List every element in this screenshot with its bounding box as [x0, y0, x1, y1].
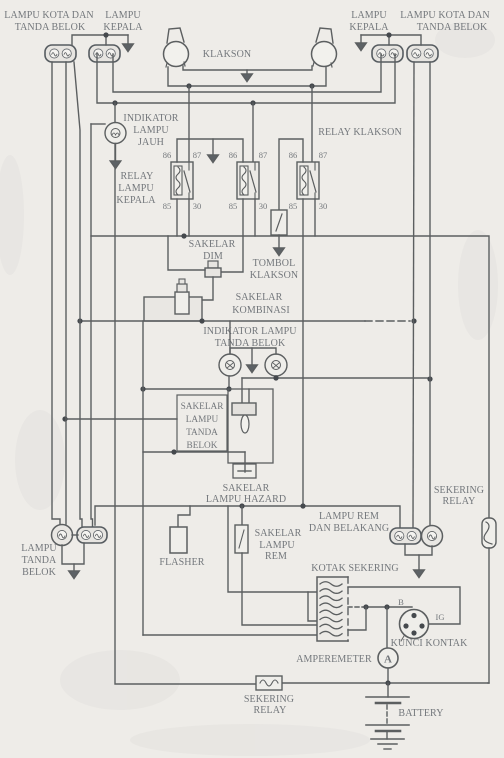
label sakelar dim: [189, 239, 236, 262]
wire right indicator to line A: [275, 376, 277, 378]
wire bottom bus: [95, 506, 400, 528]
svg-text:B: B: [398, 597, 404, 607]
svg-text:LAMPU: LAMPU: [351, 10, 387, 21]
wire top-left lamp feed: [72, 35, 128, 45]
svg-text:87: 87: [259, 150, 268, 160]
svg-text:30: 30: [193, 201, 202, 211]
wire stub left y419: [65, 418, 177, 420]
svg-text:SAKELAR: SAKELAR: [255, 528, 302, 539]
svg-text:SAKELAR: SAKELAR: [189, 239, 236, 250]
wire flasher feed: [178, 506, 190, 527]
lamp L2 kepala left: [89, 45, 120, 62]
wire left indicator to line B: [228, 376, 230, 389]
svg-text:87: 87: [193, 150, 202, 160]
wire bus C (headlamp 2): [97, 54, 395, 103]
node top-right feed junction: [386, 32, 391, 37]
svg-text:TANDA BELOK: TANDA BELOK: [417, 22, 488, 33]
svg-text:30: 30: [259, 201, 268, 211]
node bottom bus brake switch: [239, 503, 244, 508]
battery: [366, 683, 409, 739]
svg-text:86: 86: [229, 150, 238, 160]
node line A right end: [427, 376, 432, 381]
svg-text:87: 87: [319, 150, 328, 160]
wire line B: [143, 388, 228, 390]
wire line A: [242, 377, 430, 379]
svg-text:BELOK: BELOK: [187, 441, 218, 451]
label sakelar lampu hazard: [206, 483, 286, 505]
indicator lamp tanda belok left: [219, 354, 241, 376]
svg-text:KLAKSON: KLAKSON: [250, 270, 298, 281]
wire brake switch to fuse box: [242, 553, 317, 625]
wire fuse box hook: [348, 607, 366, 630]
wire relay R1 87 drop: [188, 86, 190, 162]
wire relay R3 85 long drop: [302, 199, 304, 506]
fuse sekering relay bottom: [256, 676, 282, 690]
wire fuse box B line: [348, 606, 412, 608]
wire B node to ammeter: [386, 607, 388, 648]
ammeter: [378, 648, 398, 668]
svg-text:KUNCI KONTAK: KUNCI KONTAK: [391, 638, 468, 649]
svg-text:DIM: DIM: [203, 251, 223, 262]
node horn bus to relay R3: [309, 83, 314, 88]
label sakelar lampu rem: [255, 528, 302, 562]
fuse box kotak sekering: [317, 577, 348, 641]
wire relay R3 30 to power line: [314, 199, 316, 236]
label indikator lampu jauh: [123, 113, 178, 148]
svg-text:INDIKATOR: INDIKATOR: [123, 113, 178, 124]
svg-text:LAMPU KOTA DAN: LAMPU KOTA DAN: [400, 10, 490, 21]
label sekering relay (bottom): [244, 694, 294, 716]
svg-text:REM: REM: [265, 551, 287, 562]
label lampu kepala (top left): [103, 10, 143, 33]
wire kota left vertical 3: [74, 62, 82, 527]
svg-text:KEPALA: KEPALA: [349, 22, 389, 33]
wire indikator stub: [91, 123, 105, 125]
ground arrow bottom-left lamps: [69, 564, 80, 579]
wire dim switch left to power line: [168, 236, 205, 270]
lamp bottom-left kota/belakang: [77, 527, 107, 543]
node top-left feed junction: [103, 32, 108, 37]
lamp L1 kota+tanda belok left: [45, 45, 76, 62]
horn right (klakson): [312, 28, 337, 67]
wire long bus mid (turn signal feed): [80, 320, 410, 322]
node power line relay R1: [181, 233, 186, 238]
node bus right end: [411, 318, 416, 323]
svg-text:LAMPU: LAMPU: [186, 415, 219, 425]
wire power line mid: [91, 124, 489, 518]
node stub y419: [62, 416, 67, 421]
svg-text:85: 85: [229, 201, 238, 211]
label sakelar kombinasi: [232, 292, 290, 316]
svg-text:BATTERY: BATTERY: [398, 708, 443, 719]
svg-text:INDIKATOR LAMPU: INDIKATOR LAMPU: [203, 326, 297, 337]
svg-text:30: 30: [319, 201, 328, 211]
wire rem lamps to ground: [405, 544, 432, 555]
switch sakelar lampu tanda belok: [228, 378, 273, 463]
svg-text:TANDA: TANDA: [186, 428, 218, 438]
ground arrow top-right: [356, 35, 367, 51]
switch tombol klakson: [271, 210, 287, 235]
svg-text:SEKERING: SEKERING: [244, 694, 294, 705]
node bus kombinasi corner: [199, 318, 204, 323]
node battery bus ammeter: [385, 680, 390, 685]
wire fuse box to IG loop: [348, 587, 460, 624]
wire lamp bottom-left links: [62, 535, 84, 564]
ground arrow top-left: [123, 35, 134, 52]
switch sakelar lampu rem: [235, 525, 248, 553]
ground arrow indikator jauh: [110, 144, 121, 169]
svg-text:SAKELAR: SAKELAR: [181, 402, 225, 412]
relay U1 lampu kepala A: [171, 162, 193, 199]
fuse sekering relay right: [482, 518, 496, 548]
svg-text:DAN BELAKANG: DAN BELAKANG: [309, 523, 389, 534]
svg-text:IG: IG: [436, 612, 445, 622]
lamp L3 kepala right: [372, 45, 403, 62]
wire stub y452 to hazard contact: [143, 451, 245, 453]
svg-text:86: 86: [163, 150, 172, 160]
svg-text:LAMPU: LAMPU: [259, 540, 295, 551]
lamp rem dan belakang (twin): [390, 528, 421, 544]
svg-text:A: A: [384, 654, 392, 666]
lamp tanda belok bottom left (round): [52, 525, 73, 546]
label tombol klakson: [250, 258, 298, 281]
svg-text:JAUH: JAUH: [138, 137, 164, 148]
label lampu tanda belok (bottom left): [21, 543, 57, 578]
wire kota right vertical 1: [413, 62, 414, 528]
wire kota left vertical 1: [52, 62, 60, 525]
ignition switch kunci kontak: [400, 610, 429, 642]
svg-text:RELAY: RELAY: [254, 705, 287, 716]
switch sakelar dim: [205, 261, 221, 277]
wire left indicator feed: [229, 321, 231, 354]
label relay lampu kepala: [116, 171, 156, 206]
svg-text:86: 86: [289, 150, 298, 160]
svg-text:LAMPU: LAMPU: [105, 10, 141, 21]
svg-text:KEPALA: KEPALA: [116, 195, 156, 206]
wire top-right lamp feed: [361, 35, 421, 45]
wire kota right vertical 2: [430, 62, 432, 528]
node bus C battery feed: [112, 100, 117, 105]
label sekering relay (right): [434, 485, 484, 507]
relay U2 lampu kepala B: [237, 162, 259, 199]
switch sakelar kombinasi: [144, 279, 202, 321]
wire kota left vertical 2: [65, 62, 67, 524]
wire indicator bridge: [230, 348, 276, 354]
node bus C to relay R2: [250, 100, 255, 105]
label lampu kota dan tanda belok (top right): [400, 10, 490, 33]
svg-text:TANDA BELOK: TANDA BELOK: [15, 22, 86, 33]
ground arrow indicator pair: [247, 348, 258, 373]
wire relay R1 30 to power line: [188, 199, 190, 236]
relay pin labels relay U3 klakson: [289, 150, 328, 211]
label lampu kepala (top right): [349, 10, 389, 33]
svg-text:BELOK: BELOK: [22, 567, 57, 578]
node bus left end: [77, 318, 82, 323]
wire relay R2 30 to power line: [254, 199, 256, 236]
svg-text:LAMPU KOTA DAN: LAMPU KOTA DAN: [4, 10, 94, 21]
svg-text:SEKERING: SEKERING: [434, 485, 484, 496]
wire dim switch to kombinasi: [192, 277, 213, 300]
wire high beam left vertical: [91, 236, 93, 526]
svg-text:KOMBINASI: KOMBINASI: [232, 305, 290, 316]
svg-text:LAMPU HAZARD: LAMPU HAZARD: [206, 494, 286, 505]
wire bus B (headlamp): [113, 54, 381, 92]
relay pin labels relay U2 lampu kepala B: [229, 150, 268, 211]
label sakelar lampu tanda belok: [181, 402, 225, 451]
ground arrow rem lamps: [414, 555, 425, 578]
svg-text:SAKELAR: SAKELAR: [236, 292, 283, 303]
node B line 2: [384, 604, 389, 609]
svg-text:85: 85: [289, 201, 298, 211]
indicator lamp tanda belok right: [265, 354, 287, 376]
wire relay R1 85 to power line: [176, 199, 178, 236]
ground battery: [371, 739, 404, 749]
ground arrow relay bridge: [208, 139, 219, 163]
node bottom bus relay R3 85 line: [300, 503, 305, 508]
relay U3 klakson: [297, 162, 319, 199]
ground arrow tombol klakson: [274, 235, 285, 256]
label lampu rem dan belakang: [309, 511, 389, 534]
svg-text:FLASHER: FLASHER: [159, 557, 204, 568]
node stub y452: [171, 449, 176, 454]
node B line 1: [363, 604, 368, 609]
wire fuse box jog: [308, 592, 317, 621]
switch sakelar lampu hazard: [233, 452, 256, 478]
svg-text:TANDA: TANDA: [22, 555, 57, 566]
wire horn lower bus: [168, 67, 326, 86]
svg-text:KOTAK SEKERING: KOTAK SEKERING: [311, 563, 399, 574]
wire relay R3 86 to horn button: [279, 139, 303, 210]
wire battery feed left vertical: [115, 103, 256, 684]
wire relay R2 85 to dim switch: [221, 199, 243, 272]
svg-text:TOMBOL: TOMBOL: [253, 258, 296, 269]
wire relay R1-R2 86 bridge: [177, 139, 243, 162]
svg-text:RELAY: RELAY: [121, 171, 154, 182]
label lampu kota dan tanda belok (top left): [4, 10, 94, 33]
svg-text:SAKELAR: SAKELAR: [223, 483, 270, 494]
svg-text:LAMPU REM: LAMPU REM: [319, 511, 379, 522]
svg-text:RELAY KLAKSON: RELAY KLAKSON: [318, 127, 402, 138]
flasher: [170, 527, 187, 553]
wire line-B drop to fuse box: [143, 634, 317, 636]
svg-text:KLAKSON: KLAKSON: [203, 49, 251, 60]
svg-text:LAMPU: LAMPU: [118, 183, 154, 194]
svg-text:85: 85: [163, 201, 172, 211]
wire relay R2 87 drop: [252, 103, 254, 162]
horn left (klakson): [164, 28, 189, 67]
svg-text:RELAY: RELAY: [443, 496, 476, 507]
node line B left indicator: [226, 386, 231, 391]
svg-text:AMPEREMETER: AMPEREMETER: [296, 654, 372, 665]
wire brake switch feed: [241, 506, 243, 525]
wire horn upper bus: [183, 66, 312, 70]
label box sakelar lampu tanda belok: [177, 395, 227, 451]
node horn bus to relay R1: [186, 83, 191, 88]
relay pin labels relay U1 lampu kepala A: [163, 150, 202, 211]
indicator lamp jauh: [105, 123, 126, 144]
wire battery bus bottom: [282, 682, 489, 684]
wire relay R3 87 drop: [311, 86, 313, 162]
label indikator lampu tanda belok: [203, 326, 297, 349]
svg-text:KEPALA: KEPALA: [103, 22, 143, 33]
lamp L4 kota+tanda belok right: [407, 45, 438, 62]
wire hazard drop from line B end: [142, 321, 144, 635]
wire ammeter to battery bus: [387, 668, 389, 683]
svg-text:LAMPU: LAMPU: [133, 125, 169, 136]
svg-text:LAMPU: LAMPU: [21, 543, 57, 554]
lamp belakang right (round): [422, 526, 443, 547]
wire hazard bus to fuse box: [228, 506, 317, 592]
wire right edge lower: [488, 548, 490, 683]
node line A right indicator: [273, 375, 278, 380]
node line B left end: [140, 386, 145, 391]
ground arrow horn bus: [242, 70, 253, 82]
